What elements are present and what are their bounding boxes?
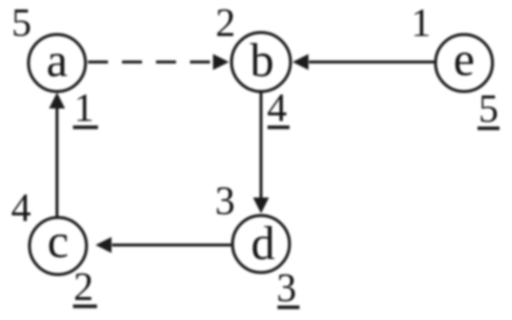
underline of 2 xyxy=(73,305,97,309)
svg-text:1: 1 xyxy=(411,0,431,45)
svg-text:e: e xyxy=(453,33,474,86)
svg-text:4: 4 xyxy=(11,185,31,230)
edge c->a wire xyxy=(56,107,59,216)
underline of 1 xyxy=(73,126,98,130)
svg-text:5: 5 xyxy=(12,0,32,45)
edge b->d wire xyxy=(260,92,263,198)
arrowhead e->b xyxy=(293,54,309,70)
edge e->b wire xyxy=(309,61,435,64)
svg-text:b: b xyxy=(250,34,274,87)
svg-text:d: d xyxy=(251,217,275,270)
svg-text:1: 1 xyxy=(74,85,94,130)
svg-text:2: 2 xyxy=(216,0,236,45)
arrowhead a->b xyxy=(213,54,229,70)
svg-text:4: 4 xyxy=(267,85,287,130)
node d xyxy=(233,216,290,273)
node a xyxy=(29,35,86,92)
underline of 3 xyxy=(278,306,300,310)
edge a->b dashed wire xyxy=(88,61,215,64)
arrowhead d->c xyxy=(96,237,112,253)
arrowhead c->a xyxy=(49,93,65,109)
underline of 5 xyxy=(478,127,500,131)
edge d->c wire xyxy=(112,244,231,247)
svg-text:3: 3 xyxy=(215,178,235,223)
node b xyxy=(232,33,291,92)
arrowhead b->d xyxy=(253,198,269,214)
svg-text:5: 5 xyxy=(479,86,499,131)
svg-text:3: 3 xyxy=(277,265,297,310)
svg-text:2: 2 xyxy=(74,264,94,309)
node e xyxy=(436,35,493,92)
node c xyxy=(30,218,87,275)
svg-text:c: c xyxy=(47,215,68,268)
underline of 4 xyxy=(268,126,290,130)
svg-text:a: a xyxy=(46,34,67,87)
